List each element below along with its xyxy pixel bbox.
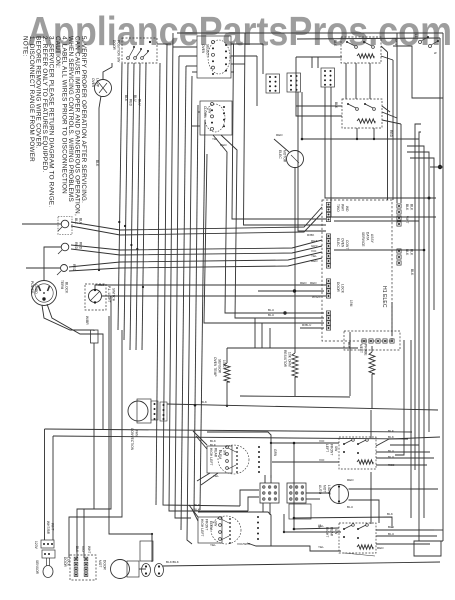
wire G2 right xyxy=(306,493,320,499)
wire bus 1 xyxy=(156,63,160,505)
svg-text:5. VERIFY PROPER OPERATION AFT: 5. VERIFY PROPER OPERATION AFTER SERVICI… xyxy=(80,36,87,203)
label P7 rows xyxy=(268,308,311,327)
connector G2 xyxy=(287,483,306,503)
receptacle prongs xyxy=(39,286,50,301)
svg-text:BLK/BLK: BLK/BLK xyxy=(166,560,179,564)
svg-text:W/GN: W/GN xyxy=(312,295,321,299)
convection fan motor xyxy=(128,399,151,423)
connector CB3 xyxy=(321,68,335,87)
label C2 xyxy=(200,519,218,537)
label BLK lamp wire xyxy=(95,160,99,167)
wire left col E xyxy=(84,430,94,558)
svg-text:POSITION SW: POSITION SW xyxy=(117,40,121,62)
element switch S2 box xyxy=(342,99,382,128)
corner switch contacts xyxy=(414,34,439,55)
svg-text:BLK: BLK xyxy=(95,160,99,167)
C2 label box xyxy=(198,517,222,543)
svg-text:15M: 15M xyxy=(349,300,353,307)
svg-text:BLK: BLK xyxy=(75,546,79,553)
wire S3 right leads xyxy=(376,437,440,465)
label wht/brown pair xyxy=(46,521,55,535)
junction h139 xyxy=(301,138,304,141)
wire run y396 xyxy=(240,396,350,397)
svg-text:ELEC: ELEC xyxy=(336,238,340,247)
wire receptacle bottom leads xyxy=(42,304,103,430)
wire M1 up xyxy=(274,139,289,152)
svg-text:4. LABEL ALL WIRES PRIOR TO DI: 4. LABEL ALL WIRES PRIOR TO DISCONNECTIO… xyxy=(61,36,68,194)
junction fan BLK xyxy=(194,404,197,407)
svg-text:DOOR: DOOR xyxy=(336,282,340,293)
label lead colors xyxy=(124,95,142,107)
wire nut line 4 xyxy=(71,246,322,255)
C1 contacts xyxy=(218,445,260,474)
connector P4 xyxy=(397,249,401,265)
wire CB2 right xyxy=(301,92,303,139)
wire P5 RED xyxy=(258,290,324,292)
svg-text:RED: RED xyxy=(300,281,307,285)
svg-text:AppliancePartsPros.com: AppliancePartsPros.com xyxy=(27,8,452,54)
wire CB2 drop xyxy=(298,92,326,231)
wire stub runs right xyxy=(334,221,424,250)
connector P1 xyxy=(326,202,330,221)
svg-text:RED: RED xyxy=(129,99,133,107)
connector CB2 xyxy=(287,73,301,92)
label C1 wires xyxy=(210,439,277,478)
svg-text:W/BR: W/BR xyxy=(85,316,89,325)
wire door switch leads xyxy=(118,63,146,350)
wire G drops xyxy=(263,475,271,515)
wire BLK fan run xyxy=(167,404,438,410)
note text block (rotated service notes) xyxy=(22,36,88,216)
svg-text:RED: RED xyxy=(347,478,354,482)
svg-text:CLOCK: CLOCK xyxy=(203,106,207,118)
svg-text:TH: TH xyxy=(317,524,321,529)
svg-text:NOTE:: NOTE: xyxy=(22,36,29,57)
svg-text:BEFORE REMOVING WIRE COVER.: BEFORE REMOVING WIRE COVER. xyxy=(35,36,42,149)
label BLK y518 xyxy=(387,512,393,516)
probe resistor xyxy=(369,352,375,374)
wire S drop 2 xyxy=(392,60,394,200)
svg-text:H1 ELEC: H1 ELEC xyxy=(381,286,387,308)
wire drop left 2 xyxy=(52,436,54,540)
wire left col A xyxy=(93,330,95,331)
control text block 3 xyxy=(336,282,345,294)
wire top run 2 xyxy=(297,38,440,39)
label door lock motor xyxy=(98,560,107,571)
wire nut W3 xyxy=(57,265,68,276)
connector K1 xyxy=(41,540,54,548)
svg-text:TERM: TERM xyxy=(60,280,64,290)
svg-text:BLU: BLU xyxy=(268,308,274,312)
element switch S4 box xyxy=(339,523,376,553)
oven lamp L1 xyxy=(95,80,112,97)
label door lock switch xyxy=(63,557,71,568)
label C2 wires xyxy=(210,542,251,547)
wire receptacle top xyxy=(43,276,45,281)
R2 contacts xyxy=(205,103,225,133)
wire bus 3 xyxy=(169,33,248,511)
svg-text:BLK: BLK xyxy=(387,512,393,516)
wire PL right xyxy=(102,295,326,297)
svg-text:MOT: MOT xyxy=(323,485,327,492)
wire YEL y529 xyxy=(294,528,339,529)
svg-text:YEL: YEL xyxy=(210,543,216,547)
svg-text:BLU: BLU xyxy=(388,532,394,536)
wire sensor top xyxy=(227,347,358,349)
svg-text:DOOR: DOOR xyxy=(63,557,67,568)
svg-text:BLK: BLK xyxy=(410,204,414,211)
svg-text:SENSOR: SENSOR xyxy=(35,560,39,575)
label S4 text xyxy=(325,527,338,537)
svg-text:RED: RED xyxy=(310,281,317,285)
svg-text:120V: 120V xyxy=(34,541,38,550)
svg-text:SW: SW xyxy=(334,446,338,451)
element switch S3 box xyxy=(339,437,376,469)
wire right bus 2 xyxy=(419,132,421,541)
svg-text:R/BK: R/BK xyxy=(307,233,314,237)
svg-text:OVEN: OVEN xyxy=(341,238,345,248)
wire v233 xyxy=(232,44,326,219)
door switch contacts xyxy=(127,41,151,59)
svg-text:WHT: WHT xyxy=(87,546,91,554)
control text block 2 xyxy=(336,238,349,249)
label W2 RED RED xyxy=(74,242,83,250)
svg-text:3. SERVICER PLEASE RETURN DIAG: 3. SERVICER PLEASE RETURN DIAGRAM TO RAN… xyxy=(48,36,55,207)
wire long run 2 xyxy=(53,436,408,439)
connector P2 xyxy=(397,204,401,226)
label S3 VIO xyxy=(319,439,325,462)
svg-text:YEL: YEL xyxy=(311,254,317,258)
PL limit switch xyxy=(89,289,102,304)
svg-text:BLU: BLU xyxy=(138,99,142,106)
svg-text:SERVICE: SERVICE xyxy=(361,232,365,247)
svg-text:SENSOR: SENSOR xyxy=(218,359,222,374)
svg-text:BLK: BLK xyxy=(388,429,394,433)
fuse F1 xyxy=(91,330,99,343)
wire R1 left leads xyxy=(173,47,197,72)
connector G1 xyxy=(260,483,279,503)
svg-text:BLU: BLU xyxy=(388,525,394,529)
wire G1 feeds xyxy=(240,490,259,511)
svg-text:RED: RED xyxy=(311,259,318,263)
label TH xyxy=(317,524,321,529)
wire nut line 6 xyxy=(69,258,322,271)
wire S drop 4 xyxy=(400,124,402,203)
wire M1 down xyxy=(294,168,296,354)
wire R2 left lead xyxy=(192,112,200,126)
svg-text:HIGH LEFT: HIGH LEFT xyxy=(200,519,204,537)
svg-text:RET: RET xyxy=(311,239,317,243)
resistor R1 xyxy=(292,353,298,377)
wire left col C xyxy=(69,330,122,557)
svg-text:CAUTION:: CAUTION: xyxy=(54,36,61,68)
junction dot mid xyxy=(283,311,286,314)
wire S3 left feeds xyxy=(272,443,339,462)
svg-text:GRN: GRN xyxy=(273,449,277,457)
svg-text:BLU: BLU xyxy=(268,313,274,317)
wire motor link xyxy=(139,568,146,570)
wire nut line 5 xyxy=(69,252,322,267)
label BLK/BLK xyxy=(166,560,179,564)
S4 dashed bottom xyxy=(344,553,375,556)
wire door box to bus xyxy=(157,43,171,45)
svg-text:L1: L1 xyxy=(414,34,418,38)
svg-text:OVEN: OVEN xyxy=(201,44,205,54)
svg-text:FRONT: FRONT xyxy=(330,444,334,455)
label C1 xyxy=(209,448,227,466)
wire h445 xyxy=(390,444,419,446)
svg-text:VIO: VIO xyxy=(311,249,317,253)
label S3 right xyxy=(388,429,395,467)
label S2 xyxy=(334,102,393,138)
wire S drop 3 xyxy=(396,33,398,203)
svg-text:1080: 1080 xyxy=(222,360,226,368)
wire W2 feed xyxy=(44,247,61,276)
wire CB3 drops xyxy=(325,87,436,217)
power receptacle xyxy=(32,281,57,306)
wire right bus 4 xyxy=(407,152,429,432)
label convection fan xyxy=(130,428,139,451)
label PL limit switch xyxy=(98,283,116,303)
wire PL feed top xyxy=(95,285,326,289)
svg-text:LEFT: LEFT xyxy=(325,444,329,452)
wire nut line 3 xyxy=(71,240,322,250)
junction P5 xyxy=(293,289,296,292)
wire S2 drops xyxy=(356,128,375,140)
svg-text:R/BLU: R/BLU xyxy=(302,323,311,327)
wire S2 left loop xyxy=(296,57,342,116)
wire R1 right stubs xyxy=(231,44,263,106)
electronic oven control box xyxy=(322,200,392,341)
svg-text:RED: RED xyxy=(389,130,393,138)
svg-text:YEL: YEL xyxy=(318,545,324,549)
label door lock feeds xyxy=(75,546,91,554)
wire C2 right loop xyxy=(284,514,341,532)
svg-text:WHT: WHT xyxy=(51,523,55,531)
junction v294 xyxy=(293,442,296,531)
label resistor xyxy=(283,350,292,368)
connector row P6 xyxy=(344,331,400,350)
S2 element xyxy=(357,119,375,123)
connector P3 xyxy=(326,234,330,268)
wire sensor stub xyxy=(226,348,228,406)
svg-text:REAR: REAR xyxy=(214,448,218,458)
S3 contacts xyxy=(343,439,368,454)
wire h139 xyxy=(302,138,419,140)
svg-text:VIO: VIO xyxy=(319,458,325,462)
label oven lamp xyxy=(91,78,100,88)
wire v294 xyxy=(293,443,295,529)
fan connector pins xyxy=(151,401,167,421)
label oven temp sensor xyxy=(213,357,226,377)
watermark AppliancePartsPros.com xyxy=(27,8,452,54)
svg-text:WHEN SERVICING CONTROLS. WIRIN: WHEN SERVICING CONTROLS. WIRING PROBLEMS xyxy=(67,36,74,202)
selector switch R2 box xyxy=(200,101,232,135)
svg-text:DOOR: DOOR xyxy=(112,40,116,51)
svg-text:ELEC: ELEC xyxy=(278,150,282,159)
wire light leads xyxy=(307,489,438,523)
conv motor M1 xyxy=(287,151,304,168)
svg-text:BLK: BLK xyxy=(194,508,200,512)
wire oven lamp top xyxy=(103,63,112,80)
svg-text:CAN CAUSE IMPROPER AND DANGERO: CAN CAUSE IMPROPER AND DANGEROUS OPERATI… xyxy=(74,36,81,216)
svg-text:SW: SW xyxy=(208,108,212,113)
wire C2 bottom xyxy=(247,543,341,551)
wire RBLU row xyxy=(300,327,324,329)
svg-text:BLK: BLK xyxy=(405,204,409,211)
svg-text:1. DISCONNECT RANGE FROM POWER: 1. DISCONNECT RANGE FROM POWER xyxy=(28,36,35,162)
label WHT/BR xyxy=(85,316,89,325)
svg-text:DOOR: DOOR xyxy=(103,560,107,571)
svg-text:2. REFER ONLY TO FEATURES EQUI: 2. REFER ONLY TO FEATURES EQUIPPED. xyxy=(41,36,48,173)
svg-text:CORD: CORD xyxy=(34,284,38,294)
svg-text:LOCK: LOCK xyxy=(341,284,345,294)
wire v440 xyxy=(439,38,441,167)
connector CB1 xyxy=(266,74,280,93)
C1 label box xyxy=(207,446,232,473)
S4 contacts xyxy=(343,524,368,539)
wire C1 bottom leads xyxy=(197,473,218,485)
wire probe stubs xyxy=(371,346,373,409)
wire top border xyxy=(177,32,443,34)
wire bus 2 xyxy=(163,44,240,506)
label S4 xyxy=(318,525,394,550)
svg-text:VIO: VIO xyxy=(81,546,85,552)
svg-text:CONVECTION: CONVECTION xyxy=(130,428,134,451)
wire bus 5 xyxy=(181,66,186,530)
connector P5 xyxy=(326,279,330,298)
label S3 text xyxy=(325,444,338,455)
wire bus 4 xyxy=(175,56,191,518)
svg-text:BLK: BLK xyxy=(210,443,216,447)
wire C2 left feeds xyxy=(189,505,198,521)
label P2 pins xyxy=(405,204,414,224)
svg-text:GRY: GRY xyxy=(311,244,318,248)
label R2 bottom xyxy=(212,137,227,147)
sensor bulb xyxy=(43,558,53,578)
label W1 BLK BLK xyxy=(74,218,83,225)
svg-text:MOTOR: MOTOR xyxy=(283,150,287,163)
wire v371 a xyxy=(370,410,372,438)
label warmer sensor xyxy=(34,541,39,575)
connector K2 xyxy=(42,550,55,558)
wire left col A2 xyxy=(93,343,95,430)
svg-text:BLU: BLU xyxy=(133,95,137,102)
svg-text:ELEM: ELEM xyxy=(218,450,222,459)
svg-text:OVEN TEMP: OVEN TEMP xyxy=(213,357,217,377)
svg-text:DATA: DATA xyxy=(366,232,370,241)
svg-text:RED: RED xyxy=(276,133,283,137)
svg-text:MOT: MOT xyxy=(98,560,102,567)
oven light xyxy=(330,485,349,504)
inline fuse pair xyxy=(142,564,164,577)
wire nut line 2 xyxy=(71,213,322,235)
svg-text:10K OHM: 10K OHM xyxy=(288,352,292,367)
wire border bottom step xyxy=(414,541,443,556)
label R1 xyxy=(201,44,210,57)
label probe xyxy=(359,344,368,356)
svg-text:VIO: VIO xyxy=(319,439,325,443)
wire right bus 5 xyxy=(410,158,434,310)
wire nut line 1 xyxy=(71,207,322,230)
wire R1 stubs xyxy=(294,377,296,396)
svg-text:FAN: FAN xyxy=(135,430,139,437)
label S1 xyxy=(333,38,398,47)
wire right bus 3 xyxy=(407,146,424,518)
svg-text:OVEN: OVEN xyxy=(91,78,95,88)
wire BLK y518 xyxy=(294,517,392,528)
svg-text:LOCK: LOCK xyxy=(67,557,71,567)
relay box xyxy=(140,534,153,561)
door lock switch box xyxy=(70,555,96,580)
wire right border xyxy=(442,33,444,541)
wire v371 b xyxy=(370,472,372,524)
svg-text:BLU: BLU xyxy=(347,505,353,509)
element switch S1 box xyxy=(341,37,381,63)
wire S1-S2 links xyxy=(346,63,370,99)
label terminal block xyxy=(60,280,69,294)
wire long run 1 xyxy=(45,429,413,432)
svg-text:CONT: CONT xyxy=(345,240,349,249)
svg-text:BLK: BLK xyxy=(410,269,414,276)
svg-text:RESISTOR: RESISTOR xyxy=(283,350,287,368)
svg-text:WAY: WAY xyxy=(341,204,345,212)
label P3 rows xyxy=(307,233,318,263)
wire v411 xyxy=(410,340,412,518)
door lock motor xyxy=(111,560,140,579)
wire left col D xyxy=(109,316,152,562)
wire S drop 1 xyxy=(387,52,389,200)
wire bus 7 xyxy=(194,105,198,510)
wire P7 drops xyxy=(255,318,270,348)
label P4 pins xyxy=(405,249,414,256)
wire S1 right xyxy=(381,46,443,98)
wire bus 6 xyxy=(187,76,192,544)
svg-text:BLOCK: BLOCK xyxy=(65,282,69,294)
S4 element xyxy=(357,545,373,549)
wire C1 left feeds xyxy=(193,431,207,449)
control text block 1 xyxy=(336,204,349,212)
connector P7 xyxy=(326,311,330,330)
svg-text:HIGH LEFT: HIGH LEFT xyxy=(209,448,213,466)
label C2 top xyxy=(194,503,200,512)
PL limit switch box xyxy=(85,284,106,310)
relay box under G2 xyxy=(289,504,311,519)
surface switch C2 loop xyxy=(198,512,271,546)
junction right bus xyxy=(423,165,443,252)
svg-text:BLK: BLK xyxy=(333,40,337,47)
wire v392 xyxy=(391,302,393,336)
wire v350 xyxy=(349,332,351,396)
svg-text:RED: RED xyxy=(377,546,384,550)
door lock switch pins xyxy=(74,557,88,576)
label BLK right bus xyxy=(410,269,414,276)
svg-text:MEAT: MEAT xyxy=(359,344,363,353)
wire W3 feed xyxy=(26,267,60,269)
S1 contacts xyxy=(346,41,374,48)
door position switch box xyxy=(122,38,157,63)
S3 element xyxy=(357,460,373,464)
surface switch C1 loop xyxy=(207,432,271,478)
oven temp sensor resistor xyxy=(224,363,230,382)
label H1 ELEC xyxy=(349,232,387,308)
wire bottom BLK/BLK run xyxy=(163,562,440,566)
svg-text:BLK: BLK xyxy=(74,218,78,225)
svg-text:POWER: POWER xyxy=(30,281,34,294)
label receptacle xyxy=(30,281,38,294)
svg-text:BLK: BLK xyxy=(124,95,128,102)
wire oven lamp down BLK xyxy=(99,96,101,270)
